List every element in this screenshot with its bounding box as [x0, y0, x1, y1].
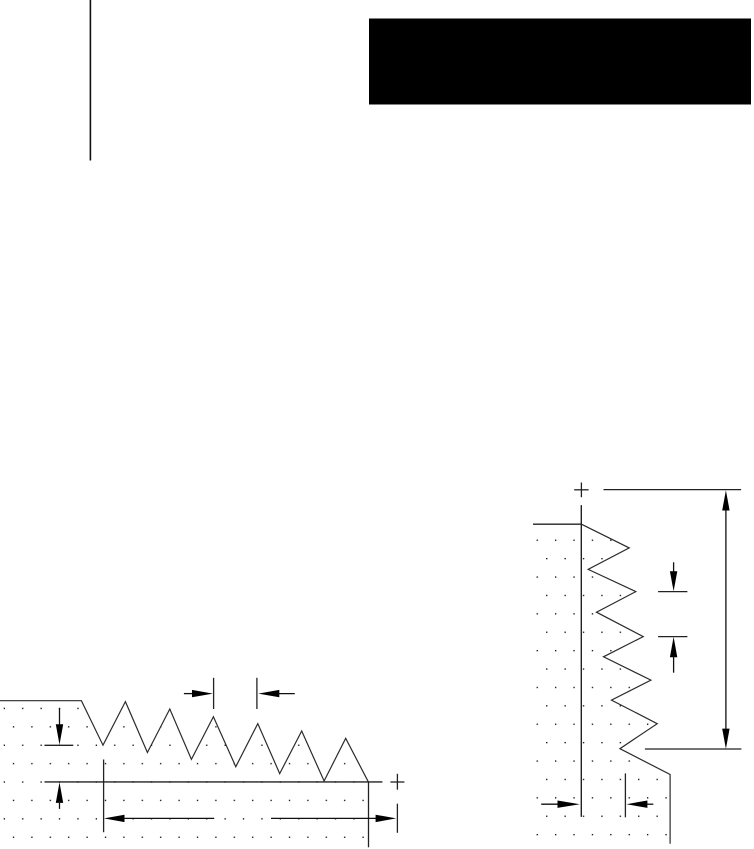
redacted title block (solid black bar) [369, 19, 751, 105]
pitch dimension: down arrow [673, 562, 675, 573]
wall thickness dimension: extension tick [624, 773, 626, 817]
wall thickness dimension: right-pointing arrow with tail [541, 803, 558, 805]
pitch dimension: left-pointing arrow [258, 690, 279, 697]
length dimension: left extension line [103, 760, 105, 833]
pitch dimension: upper tick [658, 591, 687, 593]
pitch dimension: right-pointing arrow [184, 693, 193, 695]
length dimension: right-pointing arrow with line [271, 817, 377, 819]
pitch dimension: right tick [256, 678, 258, 709]
wall thickness dimension: left-pointing arrow with tail [626, 801, 647, 808]
left section right shoulder line [368, 782, 370, 847]
overall length dimension: bottom extension line [645, 748, 742, 750]
overall length dimension: top extension line [604, 489, 742, 491]
left section datum cross [390, 781, 404, 783]
length dimension: left-pointing arrow with line [104, 815, 125, 822]
thread depth dimension: up arrow [56, 782, 63, 803]
pitch dimension: up arrow [670, 637, 677, 657]
left section stipple fill [0, 701, 369, 849]
pitch dimension: lower tick [658, 636, 687, 638]
pitch dimension: left tick [213, 678, 215, 709]
right section thread profile outline [581, 524, 670, 844]
thread depth dimension: down arrow [59, 708, 61, 726]
thread depth dimension: upper tick [45, 744, 74, 746]
right section top face line [533, 523, 581, 525]
left section minor-diameter baseline [45, 781, 383, 783]
right section bore axis line [580, 505, 582, 817]
right section datum cross [574, 489, 588, 491]
left section thread profile outline [0, 701, 369, 783]
length dimension: right extension tick [396, 804, 398, 833]
page margin rule (top left vertical line) [90, 0, 92, 161]
right section stipple fill [534, 524, 670, 849]
overall length dimension: vertical line with arrows [725, 508, 727, 731]
